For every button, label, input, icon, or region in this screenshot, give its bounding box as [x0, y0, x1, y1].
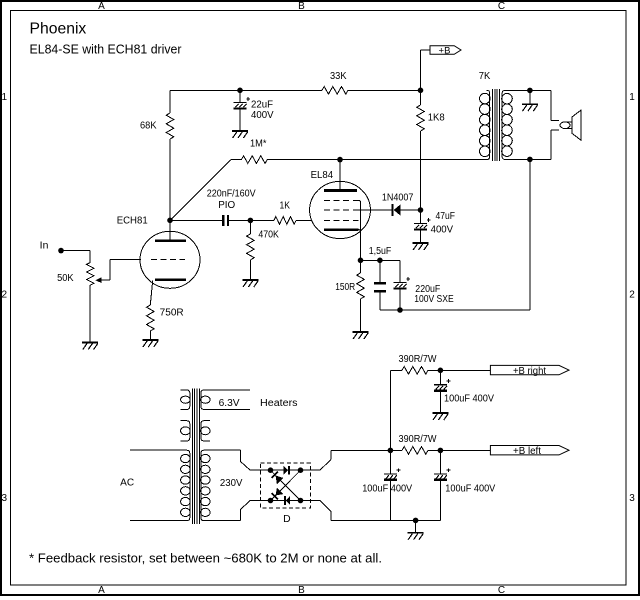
- svg-text:150R: 150R: [335, 282, 355, 293]
- svg-text:D: D: [283, 514, 291, 525]
- svg-text:7K: 7K: [479, 71, 491, 82]
- svg-text:1M*: 1M*: [250, 138, 267, 149]
- svg-text:400V: 400V: [431, 225, 454, 236]
- svg-text:ECH81: ECH81: [117, 215, 148, 226]
- svg-text:1N4007: 1N4007: [382, 192, 414, 203]
- svg-text:EL84-SE with ECH81 driver: EL84-SE with ECH81 driver: [30, 43, 182, 57]
- svg-text:68K: 68K: [140, 121, 157, 132]
- svg-text:A: A: [98, 1, 105, 12]
- svg-text:100uF 400V: 100uF 400V: [444, 394, 494, 405]
- svg-text:2: 2: [629, 290, 635, 301]
- svg-text:3: 3: [629, 493, 635, 504]
- svg-text:1K8: 1K8: [428, 112, 445, 123]
- svg-text:C: C: [498, 1, 505, 12]
- svg-text:47uF: 47uF: [436, 211, 456, 222]
- svg-text:22uF: 22uF: [251, 99, 273, 110]
- svg-text:33K: 33K: [330, 71, 347, 82]
- svg-text:230V: 230V: [220, 478, 243, 489]
- svg-text:C: C: [498, 585, 505, 596]
- svg-text:6.3V: 6.3V: [219, 398, 240, 409]
- svg-text:+B: +B: [439, 45, 451, 56]
- svg-text:100uF 400V: 100uF 400V: [445, 484, 495, 495]
- svg-text:+B left: +B left: [513, 446, 541, 457]
- svg-text:100V SXE: 100V SXE: [414, 294, 454, 305]
- svg-text:EL84: EL84: [311, 170, 334, 181]
- svg-text:* Feedback resistor, set betwe: * Feedback resistor, set between ~680K t…: [29, 551, 382, 565]
- svg-text:100uF 400V: 100uF 400V: [362, 484, 412, 495]
- svg-text:1: 1: [629, 92, 635, 103]
- svg-text:390R/7W: 390R/7W: [399, 354, 438, 365]
- svg-text:50K: 50K: [57, 273, 74, 284]
- svg-text:A: A: [98, 585, 105, 596]
- svg-text:In: In: [40, 241, 49, 252]
- svg-text:1: 1: [2, 92, 8, 103]
- svg-text:B: B: [298, 1, 305, 12]
- svg-text:220nF/160V: 220nF/160V: [207, 188, 256, 199]
- svg-text:PIO: PIO: [218, 200, 235, 211]
- svg-text:1K: 1K: [280, 200, 291, 211]
- svg-text:1,5uF: 1,5uF: [369, 246, 392, 257]
- svg-text:Heaters: Heaters: [260, 398, 298, 409]
- svg-text:2: 2: [2, 290, 8, 301]
- svg-text:390R/7W: 390R/7W: [399, 434, 438, 445]
- svg-text:400V: 400V: [251, 110, 274, 121]
- svg-text:Phoenix: Phoenix: [30, 21, 87, 38]
- svg-text:AC: AC: [120, 478, 134, 489]
- svg-text:750R: 750R: [160, 308, 184, 319]
- svg-text:+B right: +B right: [513, 366, 546, 377]
- svg-text:470K: 470K: [258, 230, 279, 241]
- svg-text:B: B: [298, 585, 305, 596]
- svg-text:3: 3: [2, 493, 8, 504]
